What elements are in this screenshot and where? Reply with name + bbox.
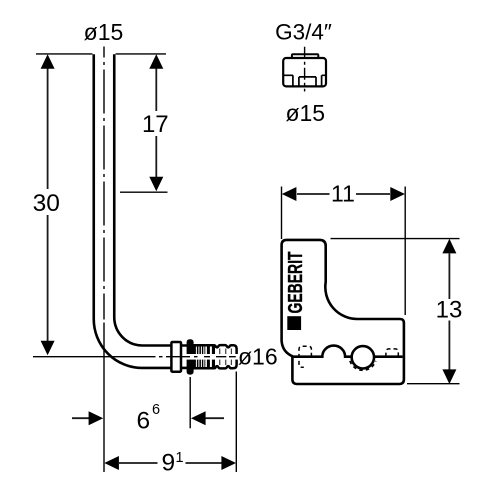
nut body: [283, 58, 326, 86]
extension line for 17 bottom (y=192): [120, 191, 168, 193]
dimension 6.6 left arrow: [89, 411, 104, 425]
svg-text:1: 1: [176, 450, 184, 466]
extension line bracket bottom (y=383.7): [407, 383, 460, 385]
svg-text:9: 9: [162, 449, 176, 476]
fitting body outline: [194, 345, 237, 368]
dimension 17 line: [155, 68, 157, 177]
dimension 9.1 right arrow: [221, 456, 236, 470]
extension line top (y=54): [36, 53, 166, 55]
svg-text:GEBERIT: GEBERIT: [284, 251, 307, 313]
svg-text:ø16: ø16: [238, 343, 278, 369]
dimension 6.6 tails: [72, 417, 224, 419]
dimension 30 line: [47, 68, 49, 341]
nut centerline: [304, 47, 306, 92]
dimension 17 arrow up: [149, 54, 163, 69]
dimension 30 arrow up: [41, 54, 55, 69]
svg-text:11: 11: [331, 181, 355, 207]
extension line bracket top (y=238.6): [331, 238, 460, 240]
dimension 9.1 line: [119, 462, 222, 464]
nut top tab: [292, 54, 318, 58]
extension line below flange (x=190): [189, 377, 191, 428]
svg-text:30: 30: [33, 190, 60, 217]
dimension 6.6 right arrow: [191, 411, 206, 425]
extension line below fitting end (x=236.3): [235, 372, 237, 473]
extension line above bracket left (x=281.5): [281, 187, 283, 240]
horizontal centerline of pipe: [33, 356, 236, 358]
svg-text:ø15: ø15: [84, 19, 124, 45]
dimension 11 right arrow: [390, 187, 405, 201]
dimension 13 line: [448, 254, 450, 370]
dimension 30 arrow down: [41, 341, 55, 356]
dashed slot left: [299, 346, 311, 367]
fitting collar: [171, 342, 181, 372]
vertical centerline of pipe: [103, 47, 105, 320]
pipe elbow outline: [94, 54, 172, 368]
dimension 13 arrow down: [442, 369, 456, 384]
bracket wavy line with hump: [292, 346, 402, 357]
dimension 11 left arrow: [282, 187, 297, 201]
pipe stubs between collar and flange: [181, 346, 187, 368]
fitting groove lines: [220, 349, 232, 366]
dashed arc around circle: [350, 361, 376, 370]
svg-text:ø15: ø15: [285, 100, 325, 126]
vertical extension below pipe center: [103, 323, 105, 473]
svg-text:13: 13: [436, 297, 463, 324]
dimension 17 arrow down: [149, 177, 163, 192]
nut hex lines: [283, 75, 325, 77]
fitting flange (black): [187, 339, 194, 374]
fitting knurl stripes: [194, 346, 215, 367]
svg-text:6: 6: [137, 408, 151, 435]
bracket circle (clamp hole): [352, 346, 374, 368]
extension line above bracket right (x=405.2): [404, 187, 406, 316]
svg-text:G3/4″: G3/4″: [275, 19, 332, 44]
dimension 9.1 left arrow: [104, 456, 119, 470]
GEBERIT logo square: [287, 316, 301, 330]
centerline white halo over fitting: [184, 354, 238, 360]
dashed slot right: [386, 349, 398, 357]
svg-text:17: 17: [142, 111, 169, 138]
svg-text:6: 6: [152, 402, 160, 418]
dimension 13 arrow up: [442, 239, 456, 254]
dimension 11 line: [297, 193, 390, 195]
bracket outline: [282, 240, 404, 384]
